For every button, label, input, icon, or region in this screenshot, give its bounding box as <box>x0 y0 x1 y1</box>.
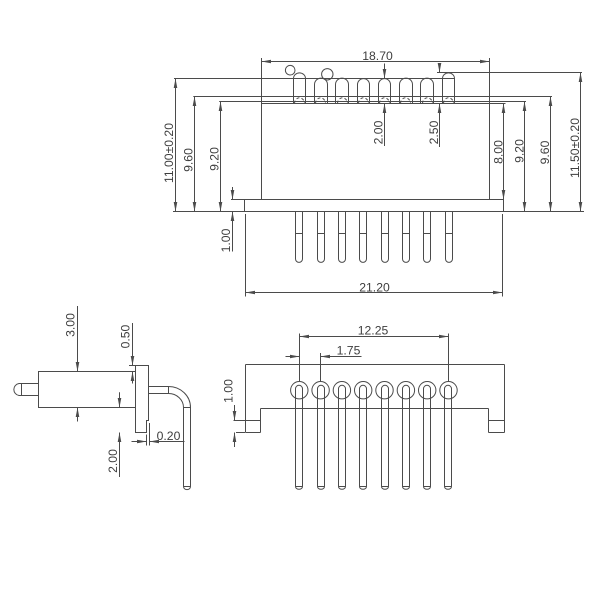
dimension 12.25 <box>300 336 449 338</box>
svg-text:9.20: 9.20 <box>512 139 526 163</box>
dimension 0.50 (plate overhang) <box>132 323 134 366</box>
side view: LED lens nub <box>14 384 39 396</box>
front view: hidden inner dome of lens 7 <box>423 98 433 104</box>
dimension 2.00 (lens height) <box>384 64 386 79</box>
bottom view: left foot <box>260 409 262 433</box>
front view: body top extension line to 8.00 dimension <box>490 103 506 105</box>
front view: LED dome lens 7 <box>421 78 434 103</box>
dimension 9.20 (right) <box>524 102 526 212</box>
dimension 0.20 (notch) <box>132 441 147 443</box>
front view: LED dome lens 3 <box>336 78 349 103</box>
front view: tall LED dome lens 8 <box>443 73 455 104</box>
bottom view: pin 5 <box>382 385 389 486</box>
svg-text:2.00: 2.00 <box>106 449 120 473</box>
svg-text:3.00: 3.00 <box>64 313 78 337</box>
front view: body outline <box>262 104 490 200</box>
front view: polarity marker circle 2 <box>322 69 333 80</box>
dimension 9.20 (left) <box>220 102 222 212</box>
dimension 0.20 (notch) extension lines <box>146 435 148 446</box>
svg-text:1.00: 1.00 <box>219 228 233 252</box>
bottom view: pin hole 7 <box>419 382 436 399</box>
front view: hidden inner dome of lens 2 <box>316 98 326 104</box>
bottom view: right foot <box>488 409 490 433</box>
dimension 21.20 extension lines <box>245 214 247 297</box>
svg-text:11.50±0.20: 11.50±0.20 <box>568 118 582 178</box>
dimension 12.25 extension lines <box>299 334 301 382</box>
bottom view: pin hole 4 <box>355 382 372 399</box>
svg-text:2.50: 2.50 <box>427 120 441 144</box>
bottom view: pin hole 3 <box>333 382 350 399</box>
dimension 1.00 (foot height) extension line <box>236 432 245 434</box>
front view: tall LED dome lens 1 <box>294 73 306 104</box>
front view: construction line (9.60 ref) <box>193 96 552 98</box>
front view: construction line at tall dome top (11.50 / 2.50 ref) <box>437 72 582 74</box>
side view: mounting plate with notch <box>136 366 149 433</box>
front view: hidden inner dome of lens 5 <box>380 98 390 104</box>
front view: pin 2 <box>318 212 325 263</box>
front view: polarity marker circle 1 <box>285 65 295 75</box>
bottom view: pin hole 1 <box>291 382 308 399</box>
svg-text:11.00±0.20: 11.00±0.20 <box>162 123 176 183</box>
front view: pin 5 <box>382 212 389 263</box>
bottom view: plate outline <box>246 364 505 366</box>
bottom view: pin hole 8 <box>440 382 457 399</box>
dimension 18.70 extension lines <box>261 58 263 103</box>
dimension 2.00 (plate below body) <box>119 392 121 407</box>
dimension 2.50 (tall lens height) <box>439 64 441 73</box>
base top extension line (left) <box>231 199 245 201</box>
front view: LED dome lens 6 <box>400 78 413 103</box>
front view: construction line (9.20 ref) <box>219 101 526 103</box>
side view: bent pin <box>149 386 169 388</box>
svg-text:8.00: 8.00 <box>491 140 505 164</box>
dimension 11.50±0.20 <box>580 73 582 212</box>
bottom view: pin hole 2 <box>312 382 329 399</box>
svg-text:12.25: 12.25 <box>358 324 389 338</box>
bottom view: pin 4 <box>360 385 367 486</box>
front view: LED dome lens 2 <box>315 78 328 103</box>
front view: hidden inner dome of lens 6 <box>401 98 411 104</box>
svg-text:9.20: 9.20 <box>207 147 221 171</box>
dimension 9.60 (left) <box>194 97 196 212</box>
bottom view: pin hole 6 <box>397 382 414 399</box>
bottom view: pin hole 5 <box>376 382 393 399</box>
base bottom extension line (right) <box>504 211 585 213</box>
dimension 1.00 (foot height) <box>234 405 236 421</box>
front view: LED dome lens 5 <box>379 79 391 104</box>
bottom view: pin 3 <box>339 385 346 486</box>
front view: hidden inner dome of lens 3 <box>338 98 348 104</box>
dimension 1.75 extension line <box>320 353 322 381</box>
front view: pin 1 <box>296 212 303 263</box>
bottom view: pin 6 <box>403 385 410 486</box>
bottom view: pin 2 <box>318 385 325 486</box>
dimension 11.00±0.20 <box>175 79 177 212</box>
dimension 8.00 (right) <box>503 104 505 200</box>
svg-text:2.00: 2.00 <box>371 120 385 144</box>
dimension 9.60 (right) <box>550 97 552 212</box>
side view: body outline <box>39 372 136 408</box>
svg-text:18.70: 18.70 <box>362 49 393 63</box>
bottom view: pin 7 <box>424 385 431 486</box>
dimension 1.75 (pin pitch) <box>286 356 300 358</box>
dimension 21.20 <box>246 292 503 294</box>
svg-text:0.20: 0.20 <box>157 429 181 443</box>
dimension 3.00 (body diameter) <box>77 306 79 372</box>
front view: pin 6 <box>403 212 410 263</box>
base bottom extension line (left) <box>173 211 245 213</box>
front view: pin 4 <box>360 212 367 263</box>
front view: hidden inner dome of lens 1 <box>295 98 305 104</box>
bottom view: pin 8 <box>445 385 452 486</box>
dimension 1.00 (base thickness) <box>232 187 234 200</box>
dimension 18.70 <box>262 61 490 63</box>
plate top extension line <box>129 365 136 367</box>
svg-text:1.00: 1.00 <box>222 379 236 403</box>
front view: hidden inner dome of lens 4 <box>359 98 369 104</box>
svg-text:21.20: 21.20 <box>359 280 390 294</box>
svg-text:9.60: 9.60 <box>538 140 552 164</box>
side view: pin bend tick marks <box>168 386 170 393</box>
front view: pin 8 <box>446 212 453 263</box>
front view: pin 3 <box>339 212 346 263</box>
svg-text:9.60: 9.60 <box>181 148 195 172</box>
front view: construction line at LED dome top (11.00 ref) <box>174 78 442 80</box>
front view: base plate <box>245 200 504 212</box>
svg-text:1.75: 1.75 <box>337 343 361 357</box>
bottom view: pin 1 <box>296 385 303 486</box>
svg-text:0.50: 0.50 <box>119 324 133 348</box>
front view: pin 7 <box>424 212 431 263</box>
front view: LED dome lens 4 <box>358 79 370 104</box>
front view: hidden inner dome of lens 8 <box>444 98 454 104</box>
